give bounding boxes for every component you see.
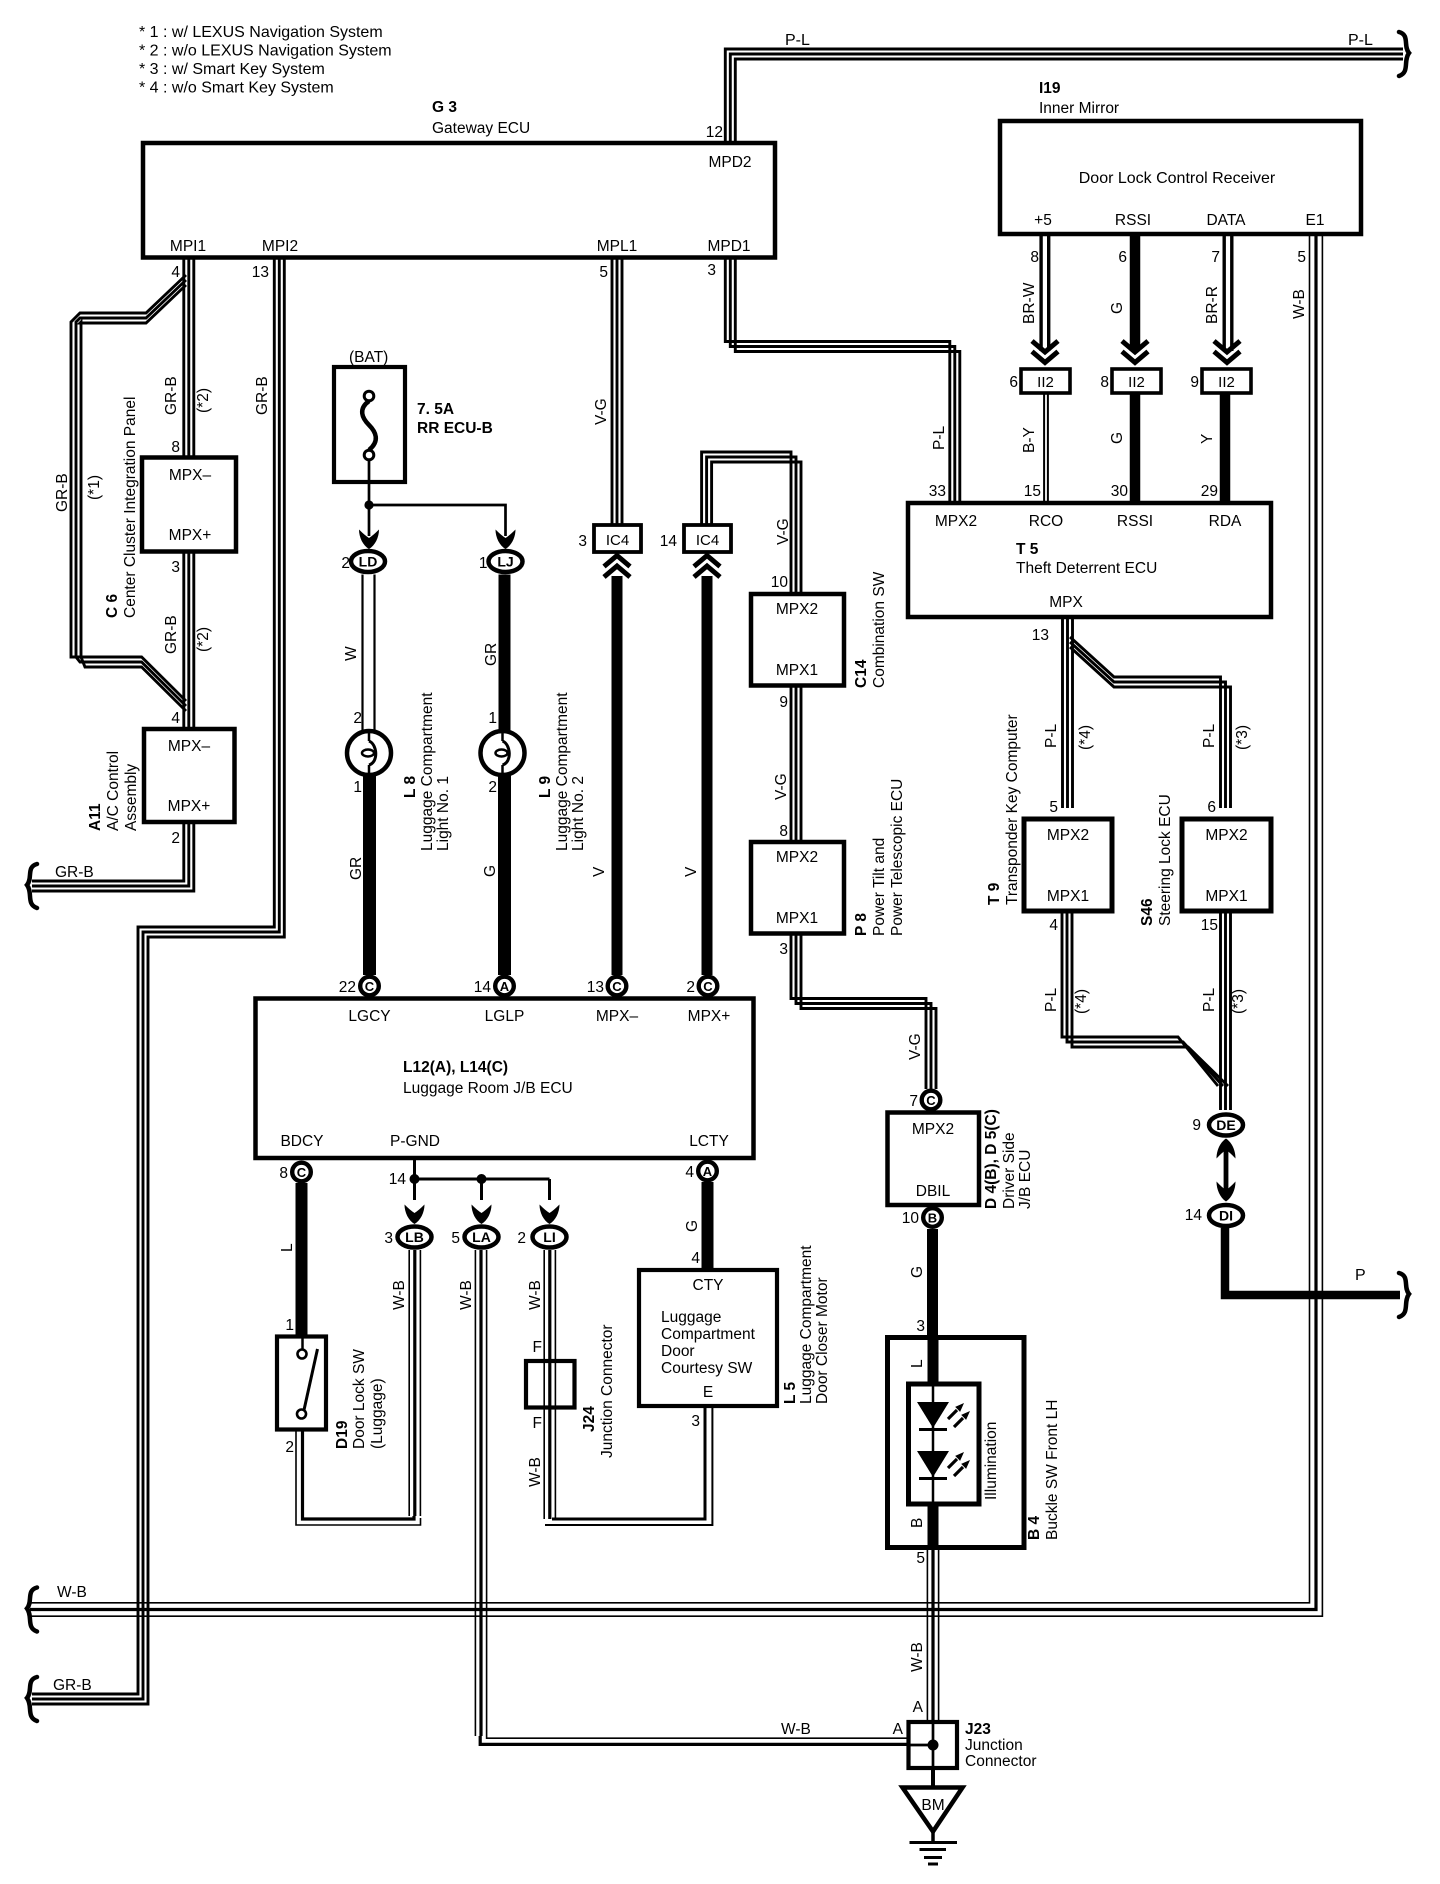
svg-text:CTY: CTY xyxy=(693,1277,724,1294)
svg-text:V: V xyxy=(591,866,608,877)
svg-text:15: 15 xyxy=(1024,483,1041,500)
svg-text:BR-W: BR-W xyxy=(1021,282,1038,324)
wire G from L9 to J/B ECU LGLP pin 14 xyxy=(498,775,511,975)
svg-text:9: 9 xyxy=(1192,1117,1201,1134)
ECU P8 Power Tilt and Power Telescopic ECU connector box xyxy=(751,842,844,934)
svg-text:II2: II2 xyxy=(1037,374,1054,391)
svg-text:3: 3 xyxy=(171,559,180,576)
svg-text:S46: S46 xyxy=(1139,898,1156,926)
wire loop from LI wire to CTY pin 3 xyxy=(552,1406,705,1519)
connector A pin 4 at LCTY xyxy=(698,1162,717,1181)
svg-text:Connector: Connector xyxy=(965,1753,1037,1770)
svg-text:C: C xyxy=(297,1165,307,1180)
connector DI pin 14 xyxy=(1209,1205,1243,1226)
svg-text:GR: GR xyxy=(348,857,365,880)
svg-text:C: C xyxy=(703,979,713,994)
junction connector J23 xyxy=(909,1722,958,1768)
svg-text:MPX–: MPX– xyxy=(596,1008,639,1025)
svg-text:GR-B: GR-B xyxy=(163,615,180,654)
svg-text:C14: C14 xyxy=(853,659,870,688)
svg-text:MPL1: MPL1 xyxy=(597,238,638,255)
svg-text:E1: E1 xyxy=(1306,212,1325,229)
svg-text:MPX1: MPX1 xyxy=(1047,888,1089,905)
svg-text:Door Lock SW: Door Lock SW xyxy=(351,1349,368,1449)
svg-text:RR ECU-B: RR ECU-B xyxy=(417,420,493,437)
svg-text:J/B ECU: J/B ECU xyxy=(1017,1150,1034,1209)
svg-text:MPI2: MPI2 xyxy=(262,238,298,255)
svg-text:P-L: P-L xyxy=(785,32,810,49)
wire G from LCTY connector A pin 4 to CTY pin 4 xyxy=(702,1182,714,1270)
illumination lamp box inside B4 xyxy=(909,1384,980,1504)
svg-text:MPX2: MPX2 xyxy=(935,513,977,530)
wire BR-R from I19 DATA pin 7 to junction II2 xyxy=(1222,234,1225,351)
svg-text:J23: J23 xyxy=(965,1721,991,1738)
svg-text:L: L xyxy=(279,1243,296,1252)
svg-text:G: G xyxy=(684,1220,701,1232)
switch C14 Combination SW connector box xyxy=(751,594,844,686)
svg-text:Compartment: Compartment xyxy=(661,1326,756,1343)
svg-text:2: 2 xyxy=(171,830,180,847)
svg-text:C: C xyxy=(612,979,622,994)
svg-text:Luggage Compartment: Luggage Compartment xyxy=(554,692,571,851)
wire GR-B (*1) bypass loop around C6 xyxy=(71,275,186,701)
svg-text:DBIL: DBIL xyxy=(916,1183,951,1200)
svg-text:P-GND: P-GND xyxy=(390,1133,440,1150)
wire link between DE and DI connectors xyxy=(1224,1150,1229,1190)
svg-text:29: 29 xyxy=(1201,483,1218,500)
svg-text:Luggage Compartment: Luggage Compartment xyxy=(798,1245,815,1404)
wire B-Y from II2 to T5 RCO pin 15 xyxy=(1043,393,1045,503)
svg-text:T 5: T 5 xyxy=(1016,541,1039,558)
svg-text:MPX2: MPX2 xyxy=(776,601,818,618)
svg-text:F: F xyxy=(533,1415,542,1432)
svg-text:3: 3 xyxy=(691,1413,700,1430)
svg-text:W-B: W-B xyxy=(57,1584,87,1601)
svg-text:V-G: V-G xyxy=(773,773,790,800)
svg-text:Light No. 2: Light No. 2 xyxy=(570,776,587,851)
svg-text:5: 5 xyxy=(916,1550,925,1567)
svg-text:Door: Door xyxy=(661,1343,695,1360)
lamp L9 Luggage Compartment Light No. 2 xyxy=(481,731,525,775)
svg-text:MPX–: MPX– xyxy=(168,738,211,755)
wire branch P-L from T5 MPX pin 13 to S46 MPX2 pin 6 xyxy=(1070,637,1221,808)
svg-text:2: 2 xyxy=(285,1439,294,1456)
svg-text:J24: J24 xyxy=(581,1406,598,1432)
svg-text:Steering Lock ECU: Steering Lock ECU xyxy=(1157,794,1174,926)
svg-text:BM: BM xyxy=(921,1797,944,1814)
svg-text:E: E xyxy=(703,1384,713,1401)
svg-text:W-B: W-B xyxy=(781,1721,811,1738)
svg-text:A: A xyxy=(500,979,510,994)
svg-text:MPX: MPX xyxy=(1049,594,1083,611)
ECU I19 Inner Mirror Door Lock Control Receiver box xyxy=(1000,121,1361,234)
svg-text:8: 8 xyxy=(779,823,788,840)
svg-text:V: V xyxy=(683,866,700,877)
junction connector J24 xyxy=(526,1361,575,1408)
svg-text:MPX+: MPX+ xyxy=(169,527,212,544)
svg-text:* 1 : w/ LEXUS Navigation Syst: * 1 : w/ LEXUS Navigation System xyxy=(139,24,383,41)
svg-text:(*4): (*4) xyxy=(1073,989,1090,1014)
svg-text:* 2 : w/o LEXUS Navigation Sys: * 2 : w/o LEXUS Navigation System xyxy=(139,43,392,60)
svg-text:LJ: LJ xyxy=(497,554,513,570)
svg-text:13: 13 xyxy=(587,979,604,996)
harness break GR-B bottom left xyxy=(27,1677,37,1721)
wire P-GND pin 14 ground distribution to LB LA LI xyxy=(413,1158,416,1179)
svg-text:14: 14 xyxy=(389,1171,407,1188)
svg-text:W: W xyxy=(343,646,360,661)
svg-text:L 5: L 5 xyxy=(782,1382,799,1404)
wire W-B from LA down to junction J23 xyxy=(474,1250,476,1736)
svg-text:MPX2: MPX2 xyxy=(1047,827,1089,844)
svg-text:Center Cluster Integration Pan: Center Cluster Integration Panel xyxy=(122,397,139,618)
svg-text:Y: Y xyxy=(1199,434,1216,444)
svg-text:30: 30 xyxy=(1111,483,1129,500)
svg-text:13: 13 xyxy=(1032,627,1049,644)
svg-text:GR-B: GR-B xyxy=(254,376,271,415)
svg-text:G: G xyxy=(1109,302,1126,314)
svg-text:W-B: W-B xyxy=(1291,289,1308,319)
harness break W-B left xyxy=(27,1588,37,1632)
svg-text:B 4: B 4 xyxy=(1026,1516,1043,1541)
svg-text:W-B: W-B xyxy=(527,1457,544,1487)
svg-text:1: 1 xyxy=(285,1317,294,1334)
svg-text:MPX1: MPX1 xyxy=(776,910,818,927)
svg-text:A: A xyxy=(913,1699,924,1716)
svg-text:15: 15 xyxy=(1201,917,1218,934)
svg-text:LB: LB xyxy=(405,1229,424,1245)
svg-text:P: P xyxy=(1355,1267,1366,1284)
svg-text:5: 5 xyxy=(599,264,608,281)
svg-text:C: C xyxy=(365,979,375,994)
wire V-G from P8 MPX1 pin 3 to J/B ECU pin 7 connector C xyxy=(791,934,926,1090)
svg-text:MPI1: MPI1 xyxy=(170,238,206,255)
ECU G3 Gateway ECU box xyxy=(143,143,775,258)
connector C pin 2 at MPX+ xyxy=(699,977,718,996)
svg-text:MPX+: MPX+ xyxy=(168,798,211,815)
svg-text:I19: I19 xyxy=(1039,80,1061,97)
svg-text:Transponder Key Computer: Transponder Key Computer xyxy=(1004,714,1021,905)
svg-text:6: 6 xyxy=(1118,249,1127,266)
harness break P right xyxy=(1399,1273,1409,1317)
svg-text:13: 13 xyxy=(252,264,269,281)
svg-text:Assembly: Assembly xyxy=(123,764,140,831)
svg-text:22: 22 xyxy=(339,979,356,996)
svg-text:A11: A11 xyxy=(87,803,104,831)
wire W from LD to luggage light L8 xyxy=(361,575,363,732)
wire G from II2 to T5 RSSI pin 30 xyxy=(1130,393,1141,503)
svg-text:3: 3 xyxy=(578,533,587,550)
svg-text:10: 10 xyxy=(902,1210,920,1227)
LED 2 illumination xyxy=(917,1451,949,1477)
wire P-L from S46 MPX1 pin 15 to junction DE xyxy=(1219,911,1222,1110)
svg-text:A/C Control: A/C Control xyxy=(105,751,122,831)
svg-text:Power Telescopic ECU: Power Telescopic ECU xyxy=(889,779,906,936)
wire loop from D19 pin 2 to LB wire xyxy=(303,1430,415,1520)
wire P-L from G3 MPD1 pin 3 to T5 MPX2 pin 33 xyxy=(725,258,950,504)
wire G from I19 RSSI pin 6 to junction II2 xyxy=(1130,234,1141,351)
svg-text:LGCY: LGCY xyxy=(348,1008,390,1025)
connector C pin 22 at LGCY xyxy=(360,977,379,996)
svg-text:2: 2 xyxy=(488,779,497,796)
panel C6 Center Cluster Integration Panel connector box xyxy=(142,458,236,552)
svg-text:* 4 : w/o Smart Key System: * 4 : w/o Smart Key System xyxy=(139,80,334,97)
ECU T5 Theft Deterrent ECU box xyxy=(908,503,1271,617)
connector LI pin 2 xyxy=(533,1227,567,1248)
wire L from BDCY connector C pin 8 to D19 pin 1 xyxy=(296,1183,308,1337)
svg-text:14: 14 xyxy=(660,533,678,550)
svg-text:3: 3 xyxy=(384,1230,393,1247)
svg-text:5: 5 xyxy=(1297,249,1306,266)
svg-text:MPD1: MPD1 xyxy=(707,238,750,255)
svg-text:MPX+: MPX+ xyxy=(688,1008,731,1025)
svg-text:6: 6 xyxy=(1207,799,1216,816)
svg-text:RSSI: RSSI xyxy=(1117,513,1153,530)
svg-text:LCTY: LCTY xyxy=(689,1133,729,1150)
ECU L12(A) L14(C) Luggage Room J/B ECU box xyxy=(256,999,754,1159)
svg-text:P-L: P-L xyxy=(931,426,948,451)
ECU D4(B) D5(C) Driver Side J/B ECU connector box xyxy=(888,1113,980,1206)
switch D19 Door Lock SW (Luggage) xyxy=(277,1337,326,1430)
svg-text:MPD2: MPD2 xyxy=(708,154,751,171)
svg-text:2: 2 xyxy=(517,1230,526,1247)
svg-text:G: G xyxy=(482,865,499,877)
svg-text:Light No. 1: Light No. 1 xyxy=(435,776,452,851)
svg-text:DI: DI xyxy=(1219,1208,1233,1224)
svg-text:Courtesy SW: Courtesy SW xyxy=(661,1360,753,1377)
wire GR-B from G3 MPI1 pin 4 down to C6 pin 8 xyxy=(182,258,185,458)
svg-text:(BAT): (BAT) xyxy=(349,349,388,366)
svg-text:BDCY: BDCY xyxy=(280,1133,323,1150)
svg-text:14: 14 xyxy=(1185,1207,1203,1224)
ECU T9 Transponder Key Computer connector box xyxy=(1024,819,1112,911)
svg-text:G: G xyxy=(909,1266,926,1278)
wire GR-B from G3 MPI2 pin 13 down to bottom-left harness break xyxy=(32,258,274,1695)
svg-text:MPX–: MPX– xyxy=(169,467,212,484)
svg-text:W-B: W-B xyxy=(458,1280,475,1310)
svg-text:II2: II2 xyxy=(1218,374,1235,391)
connector DE pin 9 xyxy=(1209,1115,1243,1136)
switch CTY Luggage Compartment Door Courtesy SW box xyxy=(639,1270,777,1406)
svg-text:7: 7 xyxy=(1211,249,1220,266)
switch B4 Buckle SW Front LH box xyxy=(888,1338,1025,1548)
svg-text:(*3): (*3) xyxy=(1230,989,1247,1014)
svg-text:* 3 : w/ Smart Key System: * 3 : w/ Smart Key System xyxy=(139,61,325,78)
svg-text:2: 2 xyxy=(686,979,695,996)
harness break P-L top right xyxy=(1399,32,1409,76)
svg-text:P-L: P-L xyxy=(1043,988,1060,1013)
svg-text:Gateway ECU: Gateway ECU xyxy=(432,120,530,137)
svg-text:MPX1: MPX1 xyxy=(1205,888,1247,905)
svg-text:B-Y: B-Y xyxy=(1021,427,1038,453)
harness break GR-B left middle xyxy=(27,864,37,908)
svg-text:MPX2: MPX2 xyxy=(1205,827,1247,844)
svg-text:F: F xyxy=(533,1339,542,1356)
svg-text:LD: LD xyxy=(359,554,378,570)
connector C pin 13 at MPX- xyxy=(608,977,627,996)
svg-text:MPX1: MPX1 xyxy=(776,662,818,679)
svg-text:7: 7 xyxy=(909,1093,918,1110)
svg-text:L12(A), L14(C): L12(A), L14(C) xyxy=(403,1059,508,1076)
svg-text:C: C xyxy=(926,1093,936,1108)
svg-text:4: 4 xyxy=(171,264,180,281)
svg-text:W-B: W-B xyxy=(909,1642,926,1672)
svg-text:P-L: P-L xyxy=(1201,988,1218,1013)
svg-text:P-L: P-L xyxy=(1348,32,1373,49)
svg-text:Illumination: Illumination xyxy=(983,1422,1000,1500)
junction connector II2 no.6 xyxy=(1021,369,1070,393)
svg-text:P-L: P-L xyxy=(1201,724,1218,749)
svg-text:RDA: RDA xyxy=(1209,513,1242,530)
svg-text:9: 9 xyxy=(1190,374,1199,391)
wire from fuse to connector LD with branch to LJ xyxy=(368,460,371,505)
svg-text:P 8: P 8 xyxy=(853,913,870,936)
wire Y from II2 to T5 RDA pin 29 xyxy=(1220,393,1231,503)
connector B pin 10 below DBIL xyxy=(923,1208,942,1227)
wire V-G from G3 MPL1 pin 5 to junction IC4 no.3 xyxy=(611,258,614,527)
svg-text:B: B xyxy=(928,1210,937,1225)
svg-text:IC4: IC4 xyxy=(606,532,629,549)
svg-text:Door Closer Motor: Door Closer Motor xyxy=(814,1277,831,1404)
svg-text:(*2): (*2) xyxy=(195,627,212,652)
svg-text:Door Lock Control Receiver: Door Lock Control Receiver xyxy=(1079,170,1276,187)
svg-text:C 6: C 6 xyxy=(104,594,121,619)
svg-text:Theft Deterrent ECU: Theft Deterrent ECU xyxy=(1016,560,1157,577)
wire GR from LJ to luggage light L9 xyxy=(499,575,511,732)
ground BM xyxy=(931,1768,935,1787)
LED 1 illumination xyxy=(917,1402,949,1428)
svg-text:Luggage Compartment: Luggage Compartment xyxy=(419,692,436,851)
svg-text:Inner Mirror: Inner Mirror xyxy=(1039,100,1119,117)
wire GR-B from C6 pin 3 to A11 pin 4 xyxy=(182,552,185,730)
svg-text:L: L xyxy=(909,1359,926,1368)
svg-text:4: 4 xyxy=(691,1250,700,1267)
connector C pin 8 at BDCY xyxy=(292,1163,311,1182)
wire P from DI to right harness break xyxy=(1225,1228,1400,1295)
svg-text:V-G: V-G xyxy=(775,518,792,545)
svg-text:1: 1 xyxy=(488,710,497,727)
svg-text:+5: +5 xyxy=(1034,212,1052,229)
svg-text:4: 4 xyxy=(1049,917,1058,934)
svg-text:1: 1 xyxy=(479,555,488,572)
svg-text:G: G xyxy=(1109,432,1126,444)
svg-text:3: 3 xyxy=(916,1318,925,1335)
junction connector IC4 no.3 xyxy=(594,525,641,552)
svg-text:3: 3 xyxy=(707,262,716,279)
ground symbol xyxy=(931,1832,935,1843)
connector LA pin 5 xyxy=(465,1227,499,1248)
svg-text:1: 1 xyxy=(353,779,362,796)
svg-text:D19: D19 xyxy=(334,1420,351,1449)
svg-text:G 3: G 3 xyxy=(432,99,457,116)
svg-text:RSSI: RSSI xyxy=(1115,212,1151,229)
wire V from IC4 no.14 to J/B ECU MPX+ pin 2 xyxy=(702,576,713,975)
svg-text:8: 8 xyxy=(171,439,180,456)
svg-text:(*1): (*1) xyxy=(86,475,103,500)
wire V from IC4 no.3 to J/B ECU MPX- pin 13 xyxy=(612,576,623,975)
svg-text:L 8: L 8 xyxy=(402,776,419,798)
wire P-L from T9 MPX1 pin 4 to junction DE xyxy=(1062,911,1218,1086)
svg-text:12: 12 xyxy=(706,124,723,141)
svg-text:MPX2: MPX2 xyxy=(776,849,818,866)
svg-text:(Luggage): (Luggage) xyxy=(369,1378,386,1449)
svg-text:V-G: V-G xyxy=(593,398,610,425)
svg-text:3: 3 xyxy=(779,941,788,958)
svg-text:7. 5A: 7. 5A xyxy=(417,401,454,418)
svg-text:Driver Side: Driver Side xyxy=(1001,1132,1018,1209)
svg-text:DE: DE xyxy=(1216,1117,1235,1133)
svg-text:GR: GR xyxy=(483,643,500,666)
svg-text:9: 9 xyxy=(779,694,788,711)
svg-text:A: A xyxy=(703,1164,713,1179)
wire W-B from LI through J24 to CTY pin 3 loop xyxy=(543,1250,545,1519)
lamp L8 Luggage Compartment Light No. 1 xyxy=(347,731,391,775)
svg-text:W-B: W-B xyxy=(391,1280,408,1310)
wire GR-B from A11 pin 2 to left harness break xyxy=(32,822,184,881)
wire W-B from LB down joining D19 pin 2 loop xyxy=(408,1250,410,1516)
svg-text:10: 10 xyxy=(771,574,789,591)
svg-text:GR-B: GR-B xyxy=(163,376,180,415)
svg-text:LGLP: LGLP xyxy=(485,1008,525,1025)
connector LB pin 3 xyxy=(398,1227,432,1248)
svg-text:33: 33 xyxy=(929,483,946,500)
junction connector IC4 no.14 xyxy=(684,525,731,552)
svg-text:2: 2 xyxy=(353,710,362,727)
svg-text:6: 6 xyxy=(1009,374,1018,391)
assembly A11 A/C Control Assembly connector box xyxy=(144,729,235,822)
connector A pin 14 at LGLP xyxy=(495,977,514,996)
svg-text:GR-B: GR-B xyxy=(53,1677,92,1694)
svg-text:5: 5 xyxy=(1049,799,1058,816)
svg-text:Luggage: Luggage xyxy=(661,1309,721,1326)
svg-text:BR-R: BR-R xyxy=(1204,286,1221,324)
svg-text:Junction Connector: Junction Connector xyxy=(599,1324,616,1458)
svg-text:IC4: IC4 xyxy=(696,532,719,549)
wire V-G from C14 MPX1 pin 9 to P8 MPX2 pin 8 xyxy=(790,686,793,843)
svg-text:Luggage Room J/B ECU: Luggage Room J/B ECU xyxy=(403,1080,573,1097)
svg-text:D 4(B), D 5(C): D 4(B), D 5(C) xyxy=(983,1109,1000,1209)
svg-text:V-G: V-G xyxy=(907,1033,924,1060)
svg-text:14: 14 xyxy=(474,979,492,996)
svg-text:4: 4 xyxy=(685,1164,694,1181)
svg-text:DATA: DATA xyxy=(1206,212,1246,229)
svg-text:(*4): (*4) xyxy=(1077,725,1094,750)
svg-text:8: 8 xyxy=(1030,249,1039,266)
svg-text:T 9: T 9 xyxy=(986,882,1003,905)
svg-text:(*3): (*3) xyxy=(1234,725,1251,750)
wire W-B from I19 E1 pin 5 down right side xyxy=(30,234,1310,1603)
wire G from DBIL pin 10 to B4 pin 3 xyxy=(927,1229,938,1338)
connector LD pin 2 xyxy=(351,551,385,572)
svg-text:8: 8 xyxy=(1100,374,1109,391)
wire BR-W from I19 +5 pin 8 to junction II2 xyxy=(1039,234,1042,351)
svg-text:Power Tilt and: Power Tilt and xyxy=(871,838,888,936)
connector LJ pin 1 xyxy=(489,551,523,572)
connector C pin 7 at top of D4 D5 J/B ECU xyxy=(922,1091,941,1110)
svg-text:2: 2 xyxy=(341,555,350,572)
svg-text:Combination SW: Combination SW xyxy=(871,571,888,688)
svg-text:P-L: P-L xyxy=(1043,724,1060,749)
svg-text:L 9: L 9 xyxy=(537,776,554,798)
junction connector II2 no.9 xyxy=(1202,369,1251,393)
svg-text:GR-B: GR-B xyxy=(54,473,71,512)
svg-text:A: A xyxy=(893,1721,904,1738)
svg-text:(*2): (*2) xyxy=(195,388,212,413)
svg-text:LI: LI xyxy=(543,1229,555,1245)
svg-text:W-B: W-B xyxy=(527,1280,544,1310)
svg-text:8: 8 xyxy=(279,1165,288,1182)
svg-text:4: 4 xyxy=(171,710,180,727)
svg-text:MPX2: MPX2 xyxy=(912,1121,954,1138)
